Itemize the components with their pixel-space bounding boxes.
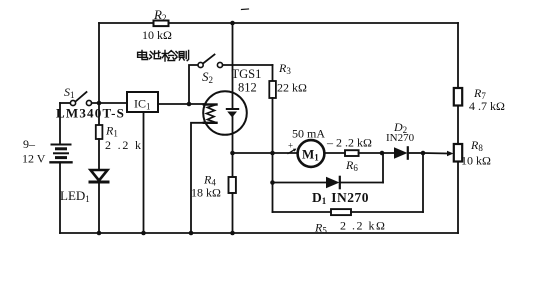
dian (138, 51, 148, 60)
ce (175, 50, 188, 60)
potentiometer R8 (454, 144, 462, 162)
meter M1 (298, 140, 325, 167)
svg-text:– 2 .2 kΩ: – 2 .2 kΩ (326, 136, 372, 150)
svg-text:18 kΩ: 18 kΩ (191, 186, 221, 200)
label 9- (23, 137, 36, 151)
label LED1 (60, 188, 90, 204)
svg-text:9–: 9– (23, 137, 36, 151)
resistor R3 (272, 65, 274, 81)
op IC1 regulator box (127, 92, 158, 112)
wire D1 line left (273, 182, 327, 184)
svg-text:50 mA: 50 mA (292, 127, 325, 141)
label D1 IN270 (312, 190, 369, 206)
svg-text:812: 812 (238, 81, 257, 95)
label D2 (393, 120, 407, 135)
sensor heater coil (204, 105, 217, 123)
node rail R4 (230, 231, 235, 236)
node D2 anode junction (380, 151, 385, 156)
svg-text:+: + (288, 141, 293, 151)
wire D1 cathode up to node B (382, 153, 384, 183)
label S1 (64, 85, 75, 100)
wire meter to R6 (324, 152, 345, 154)
node S1 junction (97, 101, 102, 106)
label R4 (203, 173, 216, 188)
node meter line R3 junction (270, 151, 275, 156)
wire IC1 ground pin (143, 112, 145, 233)
diode D1 (326, 177, 340, 188)
svg-text:22 kΩ: 22 kΩ (277, 81, 307, 95)
wire right vertical from top rail to R7 (457, 23, 459, 88)
label 50 mA (292, 127, 325, 141)
wire top rail (99, 22, 458, 24)
resistor R6 (345, 150, 359, 156)
wire sensor electrode vertical (232, 23, 234, 109)
sensor TGS812 body (203, 91, 247, 135)
label R5 (314, 221, 327, 236)
svg-text:4 .7 kΩ: 4 .7 kΩ (469, 99, 505, 113)
wire IC1 output (158, 103, 204, 105)
node rail heater (189, 231, 194, 236)
resistor R5 (331, 209, 351, 215)
label plus polarity (288, 141, 293, 151)
label R2 (153, 7, 166, 23)
stray mark dash (242, 8, 249, 11)
svg-text:2 .2 kΩ: 2 .2 kΩ (340, 219, 386, 233)
label 2.2k (R1 value) (105, 138, 143, 152)
wire S2 to R3 (223, 64, 273, 66)
svg-text:10 kΩ: 10 kΩ (461, 154, 491, 168)
label R1 (105, 124, 118, 139)
label 2.2 kOhm (R5 value) (340, 219, 386, 233)
node IC out junction (187, 102, 192, 107)
node rail IC gnd (141, 231, 146, 236)
label 12 V (22, 152, 46, 166)
resistor R7 (454, 88, 462, 106)
label R6 (345, 158, 358, 173)
LED LED1 (91, 170, 108, 181)
resistor R2 (154, 21, 169, 27)
label S2 (202, 69, 213, 85)
svg-text:2 .2 k: 2 .2 k (105, 138, 143, 152)
switch S2 (189, 65, 198, 104)
svg-text:LM340T-S: LM340T-S (56, 106, 125, 121)
label LM340T-S (56, 106, 125, 121)
wire bottom rail (60, 232, 458, 234)
svg-text:10 kΩ: 10 kΩ (142, 28, 172, 42)
node top rail junction (230, 21, 235, 26)
label minus 2.2 kOhm (R6 value) (326, 136, 372, 150)
node D1 anode junction (270, 180, 275, 185)
label IN270 (D2 value) (386, 132, 415, 144)
svg-text:IN270: IN270 (386, 132, 415, 144)
wire heater bottom to ground (191, 123, 204, 233)
meter pointer arrow (288, 150, 294, 154)
sensor electrode (227, 108, 238, 110)
svg-text:D1IN270: D1IN270 (312, 190, 369, 206)
label 18 kOhm (R4 value) (191, 186, 221, 200)
wire R5 right up to node C (422, 153, 424, 212)
node sensor bottom junction (230, 151, 235, 156)
label 10 kOhm (R2 value) (142, 28, 172, 42)
label R3 (278, 61, 291, 76)
wire to R8 wiper with arrow (423, 152, 448, 155)
wire R5 line left (273, 211, 332, 213)
resistor R1 (98, 103, 100, 125)
label TGS1 (232, 67, 262, 81)
svg-text:TGS1: TGS1 (232, 67, 262, 81)
node rail LED (97, 231, 102, 236)
wire D1 branch vertical (272, 153, 274, 212)
label 812 (238, 81, 257, 95)
battery 9-12V (51, 103, 72, 233)
label battery-check (CJK dianchi jiance) drawn glyphs (138, 50, 189, 61)
label 10 kOhm (R8 value) (461, 154, 491, 168)
chi (150, 51, 161, 59)
label 22 kOhm (R3 value) (277, 81, 307, 95)
node D2 cathode junction (421, 151, 426, 156)
wire left vertical from top rail to S1 junction (98, 23, 100, 103)
diode D2 (394, 147, 408, 158)
switch S1 (60, 102, 70, 104)
label R7 (473, 86, 486, 101)
wire meter line left (233, 152, 298, 154)
label R8 (470, 138, 483, 153)
label 4.7 kOhm (R7 value) (469, 99, 505, 113)
resistor R4 (232, 153, 234, 177)
svg-text:12 V: 12 V (22, 152, 46, 166)
jian (162, 51, 174, 62)
